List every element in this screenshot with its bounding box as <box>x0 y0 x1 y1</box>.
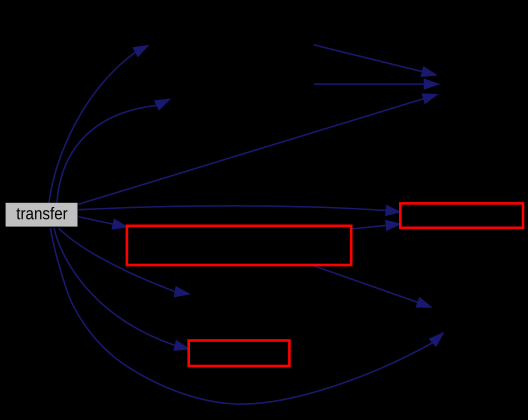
edge transfer->node F (long straight to top-right) <box>78 94 437 204</box>
edge transfer->node D (long bottom curve) <box>50 228 443 404</box>
svg-text:transfer: transfer <box>16 204 68 223</box>
node transfer (gray filled box) <box>6 203 78 227</box>
node: middle red box (truncated node) <box>127 226 351 265</box>
edge middle red box->right red box <box>353 220 401 230</box>
edge node B2->node F (horizontal) <box>314 79 439 89</box>
edge middle red box->node E <box>312 265 432 307</box>
edge node A2->node F (top-right diagonal) <box>313 45 436 77</box>
edge transfer->node B (curved, upper-left lower) <box>57 99 170 203</box>
node: small red box (truncated node) <box>189 341 290 367</box>
edge transfer->right red box <box>79 206 401 216</box>
edge transfer->node C (mid-left invisible) <box>59 228 190 297</box>
edge transfer->small red box <box>54 228 189 350</box>
edge transfer->middle red box <box>79 217 128 229</box>
edge transfer->node A (curved, upper-left) <box>49 45 148 202</box>
node: right red box (truncated node) <box>400 203 523 227</box>
